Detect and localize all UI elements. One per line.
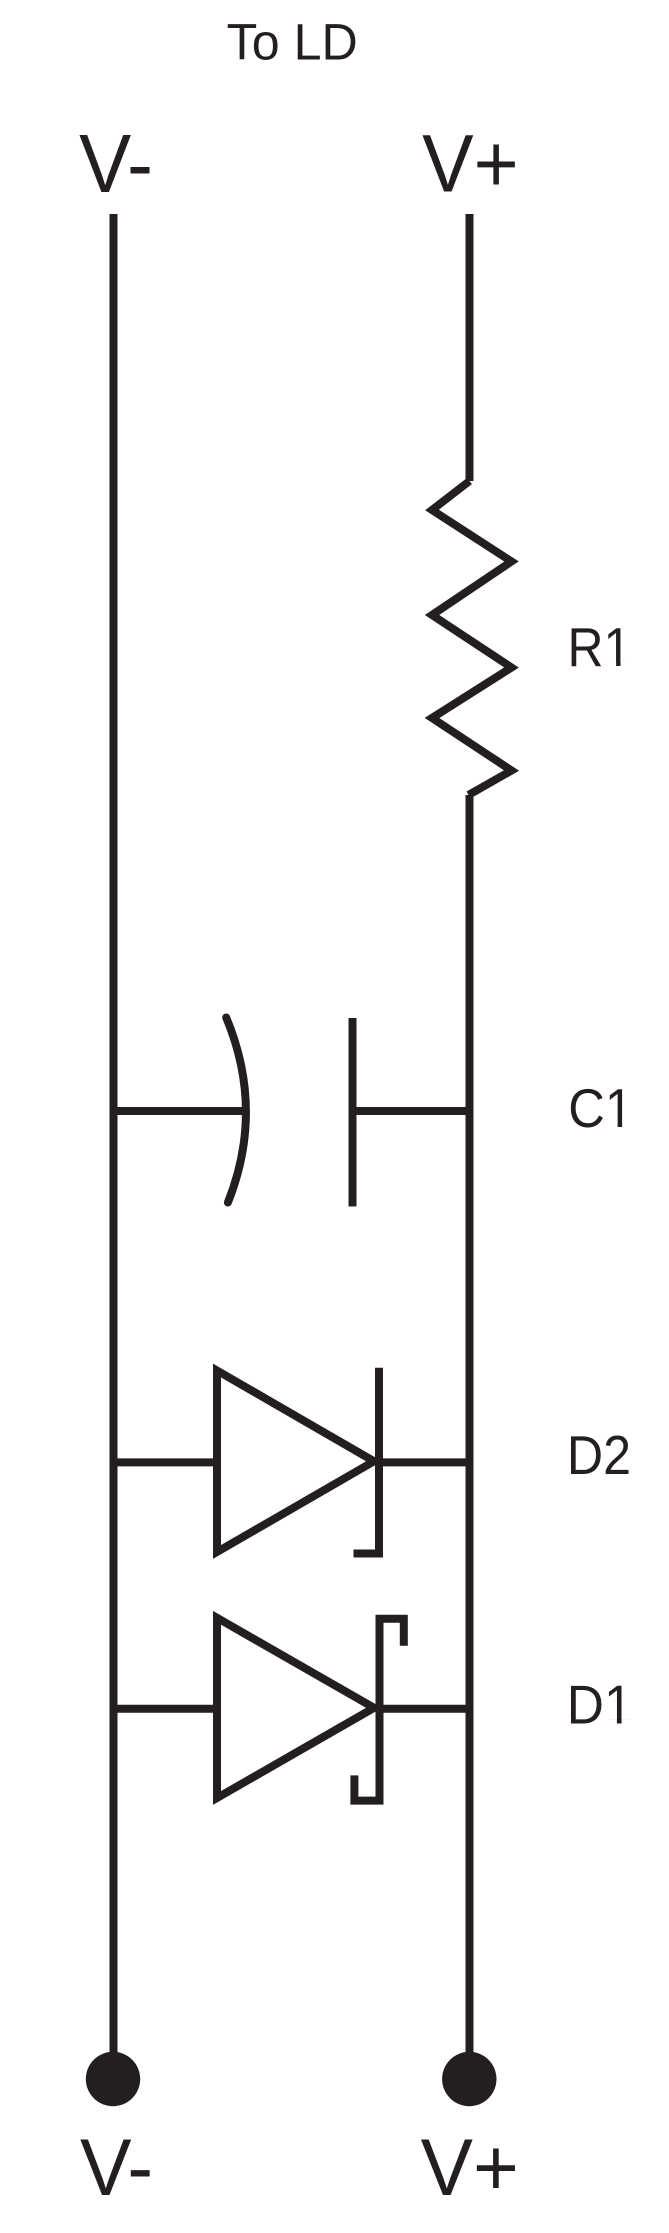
svg-text:To LD: To LD	[227, 13, 358, 70]
label D2	[567, 1426, 631, 1486]
label D1	[567, 1675, 633, 1736]
diode D2 right lead wire	[379, 1458, 470, 1466]
terminal dot V-	[86, 2052, 140, 2106]
diode D1 left lead wire	[114, 1705, 218, 1713]
svg-text:V-: V-	[79, 118, 153, 210]
node V- bottom label	[80, 2121, 153, 2212]
diode D1 schottky cathode bar	[354, 1619, 403, 1801]
wire V- vertical	[110, 214, 118, 2079]
diode D1 triangle	[217, 1618, 374, 1798]
svg-text:D1: D1	[567, 1675, 633, 1736]
capacitor C1 right lead wire	[353, 1107, 470, 1115]
svg-text:V-: V-	[80, 2121, 153, 2212]
svg-text:D2: D2	[567, 1426, 631, 1486]
svg-text:V+: V+	[422, 117, 519, 209]
wire V+ lower	[466, 795, 474, 2079]
svg-text:C1: C1	[568, 1078, 633, 1139]
wire V+ upper	[466, 214, 474, 481]
svg-text:V+: V+	[421, 2122, 519, 2212]
resistor R1	[432, 481, 512, 795]
capacitor C1 curved plate	[226, 1018, 246, 1203]
label R1	[568, 618, 632, 679]
node V+ bottom label	[421, 2122, 519, 2212]
node V+ top label	[422, 117, 519, 209]
diode D2 cathode bar	[354, 1368, 380, 1554]
label C1	[568, 1078, 633, 1139]
svg-text:R1: R1	[568, 618, 632, 679]
diode D2 left lead wire	[114, 1458, 218, 1466]
diode D1 right lead wire	[380, 1705, 470, 1713]
capacitor C1 left lead wire	[114, 1107, 245, 1115]
terminal dot V+	[442, 2052, 496, 2106]
diode D2 triangle	[217, 1371, 374, 1553]
capacitor C1 straight plate	[349, 1018, 357, 1207]
node To LD label	[227, 13, 358, 70]
node V- top label	[79, 118, 153, 210]
